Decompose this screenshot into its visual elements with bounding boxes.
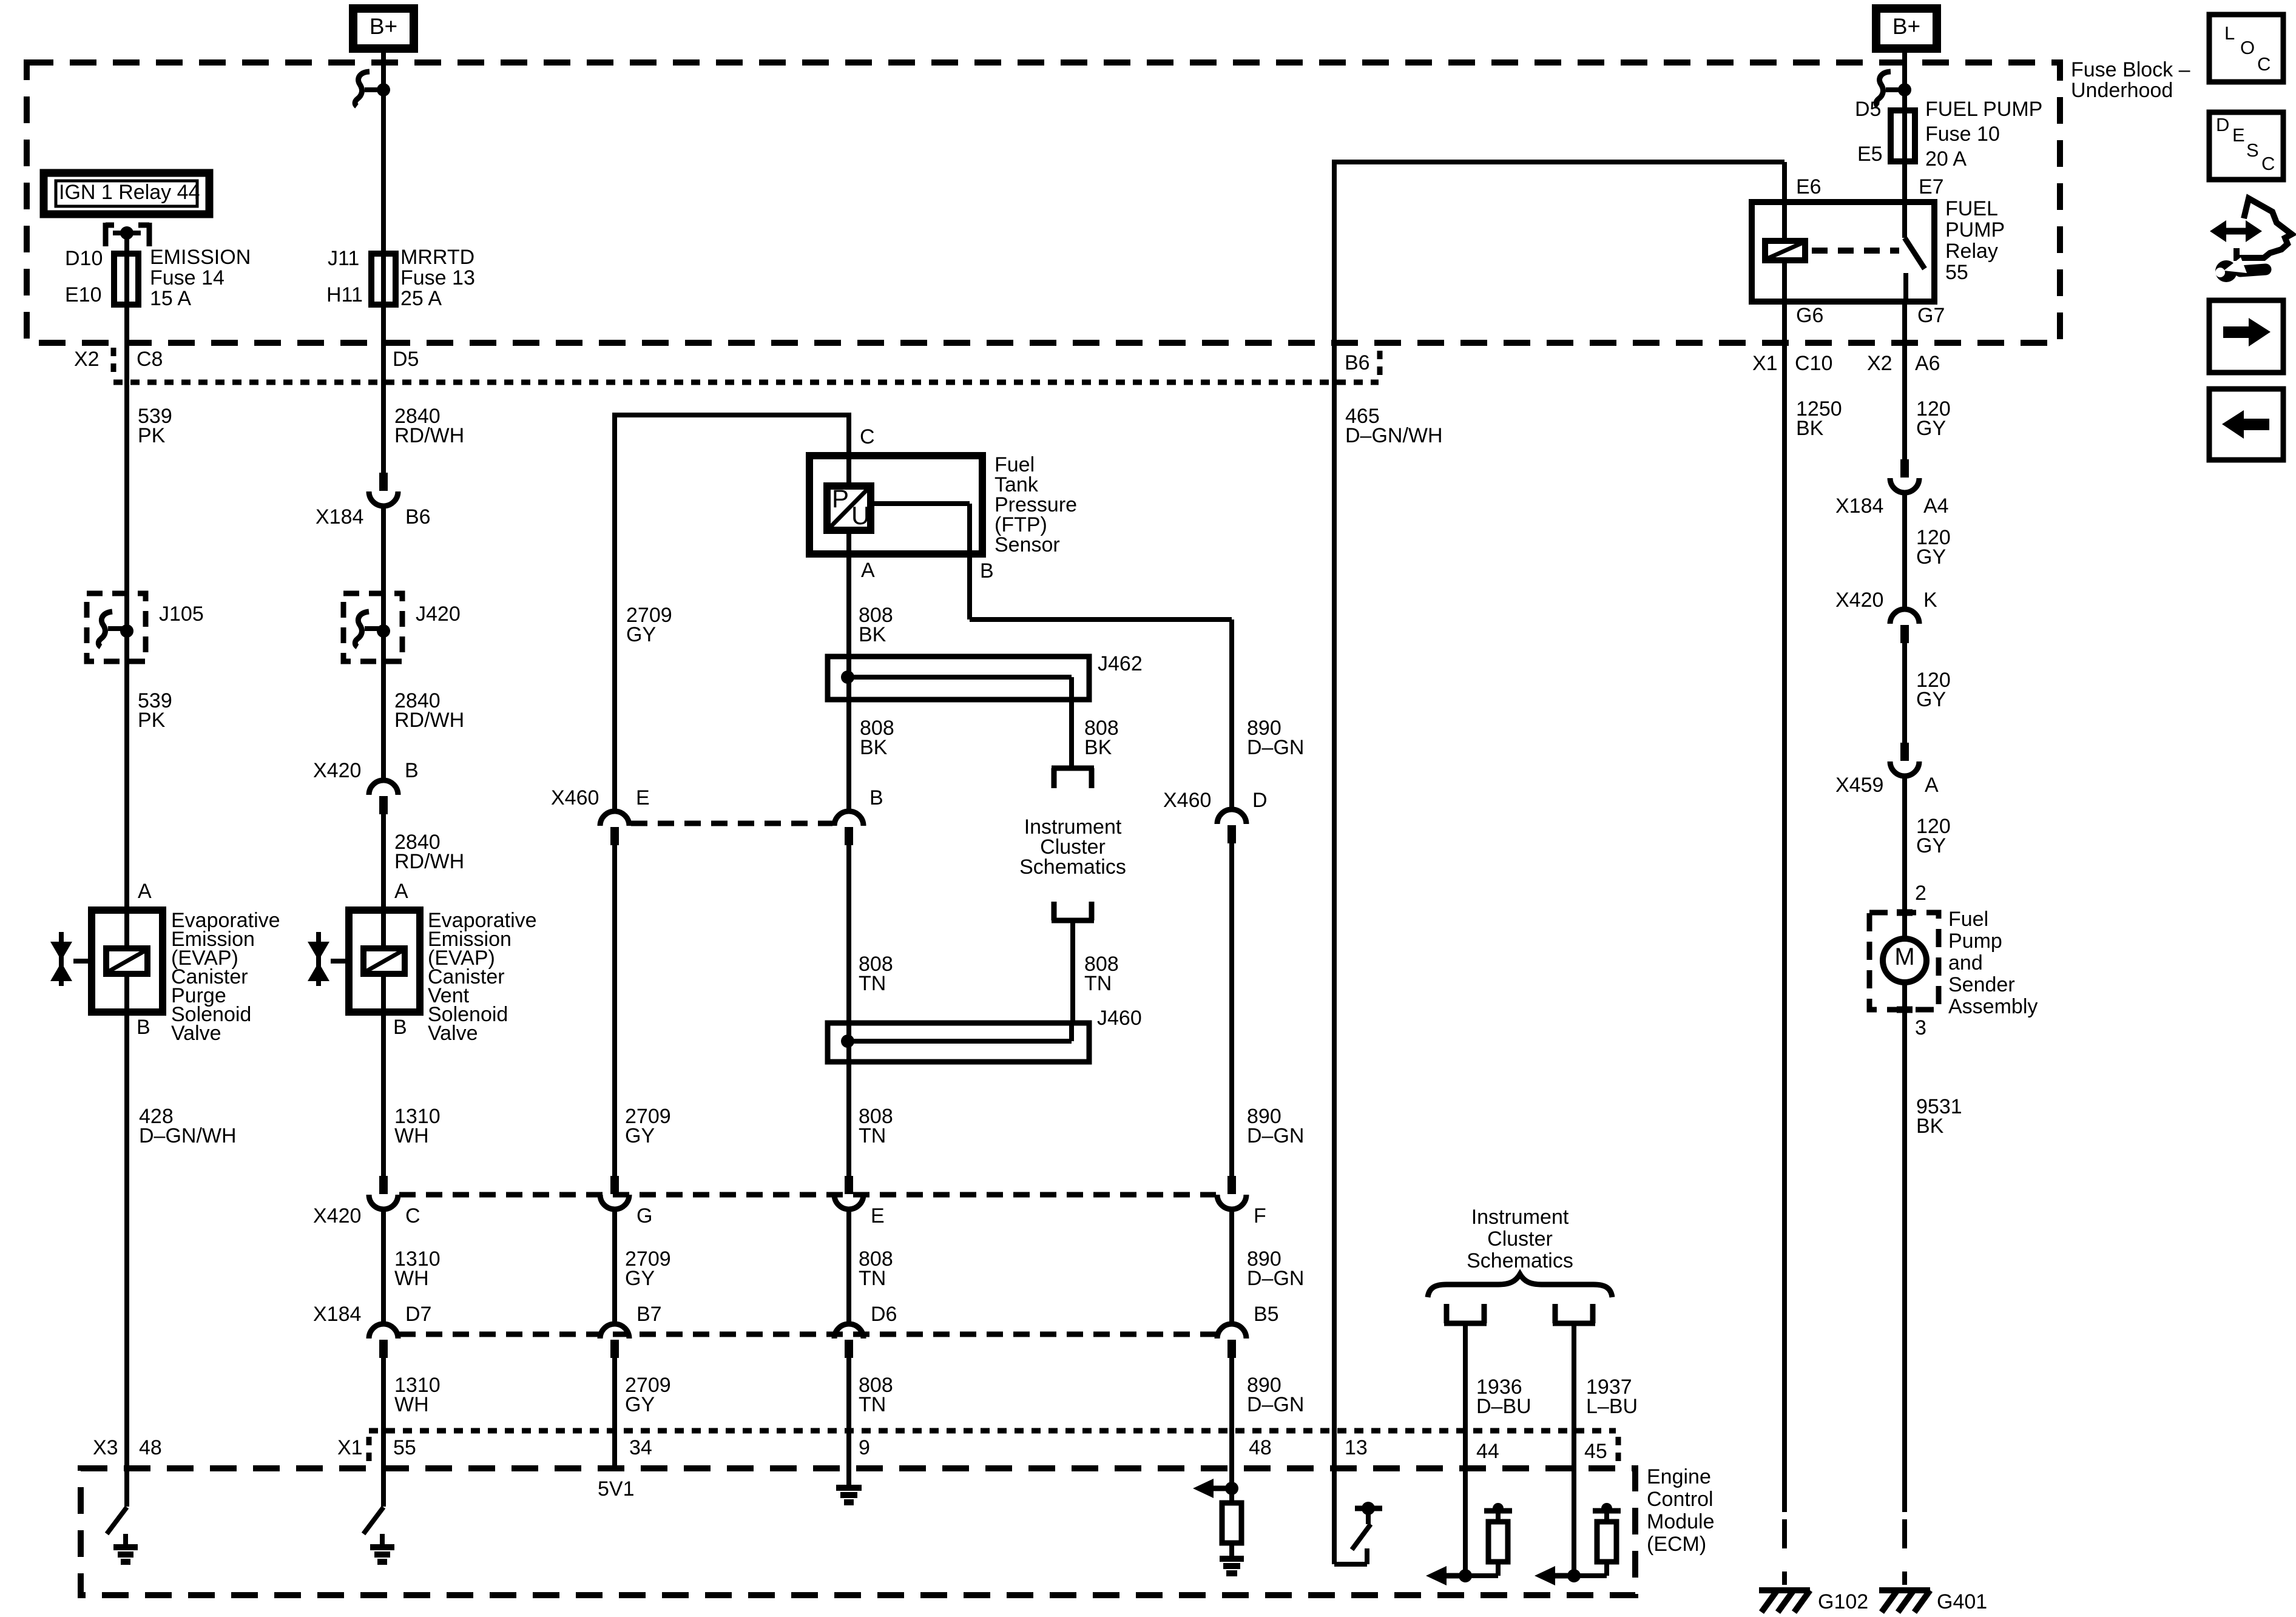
wire 808 TN mid: [846, 844, 851, 1176]
label Evaporative Emission EVAP Canister Purge Solenoid Valve: [171, 909, 280, 1045]
svg-text:TN: TN: [859, 972, 886, 995]
service icon hand and wrench: [2210, 198, 2292, 282]
svg-text:B+: B+: [370, 14, 397, 39]
junction dot pin 45: [1567, 1569, 1581, 1582]
label X2 row1: [74, 348, 100, 371]
svg-text:IGN 1 Relay 44: IGN 1 Relay 44: [59, 181, 200, 204]
connector dotted line X460 row: [631, 821, 832, 826]
connector dotted line above ECM: [369, 1428, 1616, 1434]
svg-text:L–BU: L–BU: [1586, 1395, 1638, 1418]
blade disconnect at ECM pin 48 X3: [107, 1507, 127, 1534]
svg-text:X460: X460: [551, 786, 599, 809]
wire E6 stub to relay: [1782, 162, 1787, 202]
label F conn: [1254, 1204, 1266, 1227]
label X184 row: [313, 1303, 361, 1326]
svg-text:FUEL: FUEL: [1945, 197, 1998, 220]
label E7: [1919, 175, 1944, 198]
label D5 row1: [393, 348, 419, 371]
label B conn460: [869, 786, 883, 809]
resistor at pin 44: [1465, 1503, 1512, 1576]
connector tick X2-C8: [111, 348, 116, 374]
label EMISSION Fuse 14 15 A: [150, 246, 251, 310]
svg-text:FUEL PUMP: FUEL PUMP: [1925, 98, 2042, 121]
wire 890 D-GN seg2: [1229, 1209, 1234, 1324]
label X420 at K: [1835, 589, 1883, 612]
ground inside ECM under X3-48: [113, 1534, 138, 1562]
svg-text:J420: J420: [416, 603, 461, 626]
svg-text:PK: PK: [138, 424, 166, 447]
svg-text:B: B: [405, 759, 419, 782]
label 808 TN above ECM: [859, 1374, 893, 1416]
label pin 9: [859, 1436, 870, 1459]
fuse FUEL PUMP Fuse 10 20A: [1891, 110, 1915, 161]
svg-text:D–GN: D–GN: [1247, 1393, 1304, 1416]
label 1250 BK: [1796, 397, 1842, 440]
label 120 GY 4: [1916, 815, 1951, 857]
svg-text:X2: X2: [1867, 352, 1893, 375]
splice pack J460 box: [828, 1023, 1089, 1062]
label H11: [326, 283, 363, 306]
label B6: [405, 505, 431, 528]
wire 1310 WH seg3: [381, 1358, 386, 1507]
fuel pump motor: [1883, 939, 1926, 982]
ground G102: [1759, 1590, 1810, 1612]
label D6: [871, 1303, 897, 1326]
label A pin FTP: [861, 559, 875, 582]
inline connector X460 D: [1217, 809, 1246, 843]
svg-text:G6: G6: [1796, 304, 1823, 327]
svg-text:D: D: [2216, 114, 2229, 135]
svg-text:Fuse 14: Fuse 14: [150, 266, 225, 289]
label pin 55: [393, 1436, 416, 1459]
label 808 BK upper: [859, 604, 893, 646]
forward reference arrow box: [2209, 300, 2283, 373]
svg-text:D–BU: D–BU: [1476, 1395, 1531, 1418]
relay coil: [1765, 202, 1805, 302]
svg-text:BK: BK: [1084, 736, 1112, 759]
label C10: [1795, 352, 1832, 375]
label 1310 WH between rows: [394, 1247, 441, 1290]
svg-text:GY: GY: [625, 1393, 655, 1416]
label Instrument Cluster Schematics upper: [1019, 815, 1126, 879]
svg-text:X184: X184: [1835, 495, 1883, 518]
inline connector X420 C: [369, 1176, 398, 1209]
vent valve coil: [363, 948, 405, 974]
svg-text:MRRTD: MRRTD: [400, 246, 474, 269]
label 890 D-GN above ECM: [1247, 1374, 1304, 1416]
inline connector X459 A: [1890, 743, 1919, 776]
fuse EMISSION Fuse 14 15A: [114, 254, 138, 305]
svg-text:B7: B7: [636, 1303, 662, 1326]
svg-text:Underhood: Underhood: [2071, 79, 2173, 102]
relay dashed actuator link: [1812, 248, 1899, 254]
svg-text:D: D: [1252, 789, 1268, 812]
label G conn: [636, 1204, 652, 1227]
svg-text:55: 55: [393, 1436, 416, 1459]
label 1936 D-BU: [1476, 1376, 1531, 1418]
svg-text:D–GN/WH: D–GN/WH: [139, 1124, 237, 1147]
wire B out of FTP sensor: [871, 504, 1232, 809]
svg-text:34: 34: [629, 1436, 652, 1459]
svg-text:GY: GY: [1916, 417, 1946, 440]
label X460 at D: [1163, 789, 1211, 812]
svg-text:J462: J462: [1098, 652, 1143, 675]
label pin 48: [1249, 1436, 1272, 1459]
wire 9531 BK: [1902, 982, 1907, 1512]
label B6 row1: [1345, 351, 1370, 374]
fork to instrument cluster wire 44: [1444, 1304, 1487, 1323]
label X460 at E: [551, 786, 599, 809]
svg-text:X1: X1: [337, 1436, 363, 1459]
wire 120 GY seg3: [1902, 642, 1907, 743]
svg-text:A4: A4: [1923, 495, 1949, 518]
wire 120 GY seg4: [1902, 777, 1907, 939]
J460 internal wire: [848, 1023, 1072, 1041]
svg-text:PK: PK: [138, 709, 166, 732]
svg-text:E: E: [636, 786, 650, 809]
IGN 1 Relay 44 label box: [44, 173, 209, 214]
label 2709 GY above ECM: [625, 1374, 671, 1416]
svg-text:BK: BK: [1796, 417, 1824, 440]
wire 890 D-GN mid: [1229, 842, 1234, 1176]
label Fuel Tank Pressure FTP Sensor: [994, 453, 1077, 556]
svg-text:3: 3: [1915, 1016, 1926, 1039]
svg-text:A: A: [1925, 774, 1939, 797]
wire C into FTP sensor: [846, 413, 851, 486]
label X1 row1: [1752, 352, 1778, 375]
svg-text:GY: GY: [1916, 545, 1946, 569]
connector tick B6: [1377, 351, 1383, 377]
splice J105 curl: [98, 612, 127, 647]
label X459: [1835, 774, 1883, 797]
fork to instrument cluster wire 45: [1553, 1304, 1595, 1323]
inline connector X420 K: [1890, 609, 1919, 643]
resistor at pin 48: [1222, 1488, 1241, 1559]
svg-text:20 A: 20 A: [1925, 147, 1967, 170]
label A6: [1915, 352, 1940, 375]
svg-text:Relay: Relay: [1945, 240, 1998, 263]
purge valve stub: [73, 959, 92, 964]
fuel pump box wire ticks: [1897, 913, 1913, 1010]
J462 branch wire: [848, 677, 1072, 766]
svg-text:25 A: 25 A: [400, 287, 442, 310]
svg-text:B: B: [980, 559, 994, 582]
label X3: [93, 1436, 118, 1459]
svg-text:Sender: Sender: [1948, 973, 2015, 996]
wire B+1 to MRRTD fuse: [381, 49, 386, 309]
svg-text:X184: X184: [316, 505, 363, 528]
wire 1937 L-BU: [1572, 1323, 1576, 1576]
svg-text:TN: TN: [859, 1393, 886, 1416]
svg-text:A: A: [861, 559, 875, 582]
wire 2709 GY top horizontal: [615, 413, 849, 417]
dashed wire to G401: [1902, 1519, 1907, 1585]
svg-text:48: 48: [139, 1436, 162, 1459]
label 539 PK lower: [138, 689, 172, 732]
Engine Control Module ECM dashed box: [81, 1468, 1635, 1595]
svg-text:B6: B6: [405, 505, 431, 528]
wire G6 down: [1782, 302, 1787, 1512]
inline connector X184 D6: [834, 1324, 863, 1358]
label 9531 BK: [1916, 1095, 1962, 1138]
label E conn460: [636, 786, 650, 809]
svg-text:Instrument: Instrument: [1471, 1206, 1569, 1229]
splice pack J462 box: [828, 657, 1089, 700]
inline connector X184 A4: [1890, 459, 1919, 493]
svg-text:15 A: 15 A: [150, 287, 191, 310]
label 428 D-GN/WH: [139, 1105, 237, 1147]
svg-text:Fuse Block –: Fuse Block –: [2071, 58, 2190, 81]
junction dot J462: [841, 670, 854, 684]
svg-text:X1: X1: [1752, 352, 1778, 375]
svg-text:Valve: Valve: [171, 1022, 221, 1045]
wire 1310 WH seg2: [381, 1209, 386, 1324]
svg-text:B5: B5: [1254, 1303, 1279, 1326]
svg-text:P: P: [832, 484, 849, 513]
label E conn row420: [871, 1204, 885, 1227]
svg-text:C: C: [2261, 153, 2275, 174]
label 1310 WH above ECM: [394, 1374, 441, 1416]
label D5 fuse: [1855, 98, 1881, 121]
wire A out of FTP sensor: [846, 530, 851, 811]
svg-text:A6: A6: [1915, 352, 1940, 375]
svg-text:13: 13: [1345, 1436, 1368, 1459]
svg-text:EMISSION: EMISSION: [150, 246, 251, 269]
inline connector X184 B5: [1217, 1324, 1246, 1358]
label Fuel Pump and Sender Assembly: [1948, 908, 2038, 1018]
svg-text:44: 44: [1476, 1440, 1499, 1463]
label pin 48 X3: [139, 1436, 162, 1459]
B+ terminal 1: [353, 8, 414, 49]
wire 2840 RD/WH from fuse: [381, 305, 386, 473]
wire 808 TN seg2: [846, 1209, 851, 1324]
wire 1936 D-BU: [1463, 1323, 1468, 1576]
svg-text:E: E: [871, 1204, 885, 1227]
connector dotted line X2 row: [113, 380, 1379, 385]
label Fuse Block - Underhood: [2071, 58, 2190, 102]
wire 465 top horizontal run: [1334, 160, 1784, 343]
svg-text:C: C: [405, 1204, 420, 1227]
svg-text:GY: GY: [625, 1124, 655, 1147]
svg-text:Fuel: Fuel: [1948, 908, 1988, 931]
label A valve1: [138, 880, 152, 903]
dashed wire to G102: [1782, 1519, 1787, 1585]
svg-text:45: 45: [1584, 1440, 1607, 1463]
label A valve2: [394, 880, 408, 903]
label X420 row: [313, 1204, 361, 1227]
junction dot below B+1: [377, 83, 390, 96]
label FUEL PUMP Fuse 10 20 A: [1925, 98, 2042, 170]
svg-text:E: E: [2232, 124, 2245, 146]
inline connector X420 E: [834, 1176, 863, 1209]
svg-text:Schematics: Schematics: [1019, 856, 1126, 879]
svg-text:WH: WH: [394, 1267, 429, 1290]
label 120 GY 2: [1916, 526, 1951, 569]
inline connector X184 B6: [369, 473, 398, 506]
svg-text:9: 9: [859, 1436, 870, 1459]
label pin 3 pump: [1915, 1016, 1926, 1039]
label Instrument Cluster Schematics lower: [1467, 1206, 1573, 1272]
relay FUEL PUMP Relay 55 box: [1752, 202, 1934, 302]
svg-text:X184: X184: [313, 1303, 361, 1326]
label X420 at B: [313, 759, 361, 782]
resistor at pin 45: [1574, 1503, 1621, 1576]
switch return stub pin 13: [1334, 1548, 1367, 1564]
arrow left at pin 48: [1193, 1479, 1232, 1498]
label 2840 RD/WH upper: [394, 405, 464, 447]
svg-text:A: A: [394, 880, 408, 903]
label J460: [1097, 1007, 1142, 1030]
label J105: [159, 603, 204, 626]
svg-text:Module: Module: [1647, 1510, 1715, 1533]
ground inside ECM under 55: [370, 1534, 394, 1562]
svg-text:A: A: [138, 880, 152, 903]
inline connector X460 B: [834, 811, 863, 845]
svg-text:G401: G401: [1937, 1590, 1987, 1613]
LOC reference box: [2209, 15, 2283, 82]
label A4: [1923, 495, 1949, 518]
label B pin FTP: [980, 559, 994, 582]
label B5: [1254, 1303, 1279, 1326]
junction dot J420: [377, 624, 390, 638]
brace instrument cluster: [1428, 1274, 1612, 1297]
label 465 D-GN/WH: [1345, 405, 1443, 447]
svg-text:B6: B6: [1345, 351, 1370, 374]
splice J105 box: [87, 593, 146, 661]
svg-text:G: G: [636, 1204, 652, 1227]
label A conn459: [1925, 774, 1939, 797]
label 808 TN between rows: [859, 1247, 893, 1290]
blade disconnect at ECM pin 55: [363, 1507, 383, 1534]
Fuse Block - Underhood dashed box: [27, 62, 2060, 343]
label D conn460: [1252, 789, 1268, 812]
connector tick X1-55: [366, 1437, 372, 1465]
label 2840 RD/WH lower: [394, 831, 464, 873]
svg-text:(ECM): (ECM): [1647, 1533, 1706, 1556]
svg-text:TN: TN: [859, 1267, 886, 1290]
svg-text:H11: H11: [326, 283, 363, 306]
splice J420 box: [343, 593, 402, 661]
label G6: [1796, 304, 1823, 327]
label X1: [337, 1436, 363, 1459]
svg-text:K: K: [1923, 589, 1937, 612]
wire 2709 GY upper: [612, 413, 617, 811]
ground under pin 48 resistor: [1220, 1559, 1244, 1573]
label B conn: [405, 759, 419, 782]
splice hook at B+2: [1876, 72, 1905, 106]
wire 2709 GY seg3: [612, 1358, 617, 1468]
svg-text:RD/WH: RD/WH: [394, 709, 464, 732]
fuse MRRTD Fuse 13 25A: [371, 254, 396, 305]
label 1937 L-BU: [1586, 1376, 1638, 1418]
inline connector X420 F: [1217, 1176, 1246, 1209]
label E10: [65, 283, 102, 306]
svg-text:Valve: Valve: [428, 1022, 478, 1045]
label pin 34: [629, 1436, 652, 1459]
FTP P/U transducer square: [827, 484, 871, 530]
svg-text:Sensor: Sensor: [994, 533, 1060, 556]
svg-text:X420: X420: [1835, 589, 1883, 612]
svg-text:J460: J460: [1097, 1007, 1142, 1030]
inline connector X184 B7: [600, 1324, 629, 1358]
label C pin: [860, 425, 875, 448]
wire 465 into ECM pin 13: [1332, 342, 1337, 1564]
label 808 TN branch: [1084, 953, 1119, 995]
arrow left at pin 44: [1426, 1566, 1465, 1585]
label X2 row1 right: [1867, 352, 1893, 375]
svg-text:Cluster: Cluster: [1487, 1227, 1553, 1251]
svg-text:B: B: [393, 1016, 407, 1039]
svg-text:E5: E5: [1857, 143, 1883, 166]
label 2709 GY lower: [625, 1105, 671, 1147]
wire B+2 down to FUEL PUMP fuse: [1902, 49, 1907, 164]
wire 2709 GY seg2: [612, 1209, 617, 1324]
label E5: [1857, 143, 1883, 166]
label 808 BK left below J462: [860, 717, 894, 759]
svg-text:D6: D6: [871, 1303, 897, 1326]
svg-text:5V1: 5V1: [598, 1477, 635, 1501]
svg-text:PUMP: PUMP: [1945, 218, 2005, 241]
svg-text:RD/WH: RD/WH: [394, 424, 464, 447]
wire fuse to relay E7: [1902, 161, 1907, 202]
label 808 TN left: [859, 953, 893, 995]
relay switch contact: [1905, 202, 1925, 302]
inline connector X460 E: [600, 811, 629, 845]
svg-text:Control: Control: [1647, 1488, 1714, 1511]
DESC reference box: [2209, 112, 2283, 180]
svg-text:D–GN: D–GN: [1247, 1267, 1304, 1290]
wire 120 GY seg2: [1902, 493, 1907, 609]
label MRRTD Fuse 13 25 A: [400, 246, 475, 310]
svg-text:G102: G102: [1818, 1590, 1868, 1613]
off-page fork from instrument cluster: [1052, 902, 1094, 920]
svg-text:B: B: [137, 1016, 150, 1039]
label 808 TN below J460: [859, 1105, 893, 1147]
junction dot below B+2: [1898, 83, 1911, 96]
svg-text:C: C: [860, 425, 875, 448]
splice J420 curl: [355, 612, 383, 647]
label 2709 GY between rows: [625, 1247, 671, 1290]
label 2709 GY upper: [626, 604, 672, 646]
ground G401: [1879, 1590, 1930, 1612]
ground inside ECM under 9: [836, 1474, 862, 1502]
label D7: [405, 1303, 431, 1326]
label 890 D-GN lower: [1247, 1105, 1304, 1147]
svg-text:GY: GY: [625, 1267, 655, 1290]
wire G7 down: [1902, 302, 1907, 459]
wire 890 D-GN seg3: [1229, 1358, 1234, 1488]
wire 2840 lower: [381, 813, 386, 1176]
label K: [1923, 589, 1937, 612]
svg-text:G7: G7: [1917, 304, 1945, 327]
purge valve pintle symbol: [50, 932, 72, 986]
label pin 2 pump: [1915, 882, 1926, 905]
svg-text:L: L: [2224, 22, 2235, 44]
label 120 GY 1: [1916, 397, 1951, 440]
label 890 D-GN upper: [1247, 717, 1304, 759]
svg-text:D–GN: D–GN: [1247, 1124, 1304, 1147]
inline connector X420 B: [369, 780, 398, 814]
label X184 at B6: [316, 505, 363, 528]
svg-text:E6: E6: [1796, 175, 1822, 198]
label 539 PK upper: [138, 405, 172, 447]
svg-text:55: 55: [1945, 261, 1968, 284]
label 890 D-GN between rows: [1247, 1247, 1304, 1290]
inline connector X184 D7: [369, 1324, 398, 1358]
svg-text:O: O: [2240, 37, 2255, 58]
svg-text:B+: B+: [1893, 14, 1920, 39]
svg-text:D–GN/WH: D–GN/WH: [1345, 424, 1443, 447]
